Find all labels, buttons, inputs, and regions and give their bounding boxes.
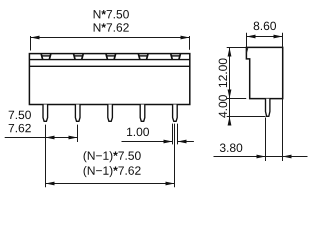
pin offset arrow right (283, 155, 292, 159)
pin offset arrow left (257, 155, 266, 159)
top dimension arrow right (181, 36, 190, 40)
pin width leader line left (122, 141, 173, 143)
pin 5 center extension line (174, 124, 176, 188)
side view pin (266, 99, 270, 117)
pin 5 (front) (173, 105, 178, 122)
label 8.60 (254, 22, 276, 31)
pin tip extension line (227, 116, 266, 118)
leader line from 7.62 label (5, 137, 46, 139)
top dimension line (31, 37, 190, 39)
label N*7.50 (94, 10, 129, 19)
label 1.00 (127, 128, 149, 136)
overall pitch arrow right (166, 182, 175, 186)
label 4.00 (219, 95, 228, 118)
width dim extension right (282, 33, 284, 48)
pitch dimension extension line pin1 (45, 125, 47, 188)
pin length arrow up (228, 117, 232, 126)
label 12.00 (219, 58, 228, 87)
pin 3 (front) (108, 105, 113, 122)
label (N-1)*7.50 (84, 151, 141, 162)
top dimension extension line left (30, 36, 32, 51)
pitch dimension line (46, 137, 78, 139)
front view ledge line 2 (29, 65, 189, 67)
width arrow right (274, 35, 283, 39)
body right edge extension down (282, 99, 284, 161)
pitch dimension arrow left (46, 136, 55, 140)
pin width extension line left (172, 124, 174, 145)
pin width extension line right (177, 124, 179, 145)
pin 2 (front) (75, 105, 80, 122)
pin extension line down (265, 118, 267, 162)
label 3.80 (220, 144, 242, 153)
pin offset leader left (214, 156, 283, 158)
front view body outline (29, 54, 189, 105)
pin offset tail right (283, 156, 308, 158)
screw slot notch 4 (138, 54, 148, 59)
screw slot notch 3 (106, 54, 116, 59)
label N*7.62 (94, 23, 129, 32)
pin 4 (front) (140, 105, 145, 122)
pitch dimension extension line pin2 (77, 125, 79, 142)
pitch dimension arrow right (69, 136, 78, 140)
height arrow down (228, 90, 232, 99)
width arrow left (247, 35, 256, 39)
width dimension line (247, 36, 283, 38)
side view chamfer line (246, 48, 247, 53)
width dim extension left (246, 33, 248, 48)
screw slot notch 1 (41, 54, 51, 59)
pin 1 (front) (43, 105, 48, 122)
pin width arrow left (164, 140, 173, 144)
height arrow up (228, 48, 232, 57)
overall pitch arrow left (46, 182, 55, 186)
front view ledge line 1 (29, 59, 189, 61)
label 7.50 (9, 111, 31, 120)
height dim extension top (227, 47, 247, 49)
screw slot notch 2 (74, 54, 84, 59)
overall pitch dimension line (46, 183, 175, 185)
vertical dimension line (229, 48, 231, 124)
pin width arrow right (178, 140, 187, 144)
screw slot notch 5 (171, 54, 181, 59)
height dim extension middle (227, 98, 247, 100)
label (N-1)*7.62 (84, 166, 141, 177)
top dimension extension line right (189, 36, 191, 50)
label 7.62 (9, 124, 31, 133)
top dimension arrow left (31, 36, 40, 40)
pin width tail right (178, 141, 194, 143)
side view body outline (246, 47, 282, 98)
